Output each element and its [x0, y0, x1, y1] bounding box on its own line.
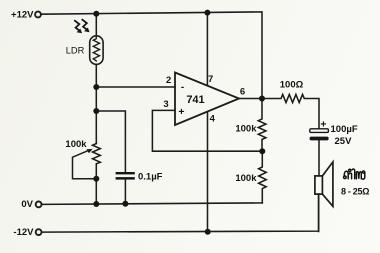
svg-text:6: 6 — [240, 87, 245, 98]
svg-text:0.1µF: 0.1µF — [138, 172, 163, 183]
svg-text:100k: 100k — [235, 173, 257, 184]
svg-text:25V: 25V — [335, 136, 353, 147]
svg-text:LDR: LDR — [66, 46, 85, 56]
svg-text:2: 2 — [166, 75, 171, 86]
svg-text:-: - — [181, 82, 184, 93]
svg-text:0V: 0V — [21, 199, 33, 210]
svg-text:741: 741 — [186, 94, 204, 106]
svg-text:+: + — [320, 119, 326, 131]
svg-text:100µF: 100µF — [331, 124, 358, 135]
svg-text:100Ω: 100Ω — [280, 80, 304, 91]
svg-text:7: 7 — [208, 74, 213, 85]
svg-text:+12V: +12V — [11, 10, 34, 21]
svg-text:3: 3 — [163, 99, 168, 110]
svg-text:100k: 100k — [235, 124, 257, 135]
svg-text:100k: 100k — [65, 139, 87, 150]
svg-text:8 - 25Ω: 8 - 25Ω — [341, 186, 369, 196]
svg-text:-12V: -12V — [13, 227, 34, 238]
svg-text:4: 4 — [210, 114, 216, 125]
svg-text:+: + — [178, 106, 184, 118]
